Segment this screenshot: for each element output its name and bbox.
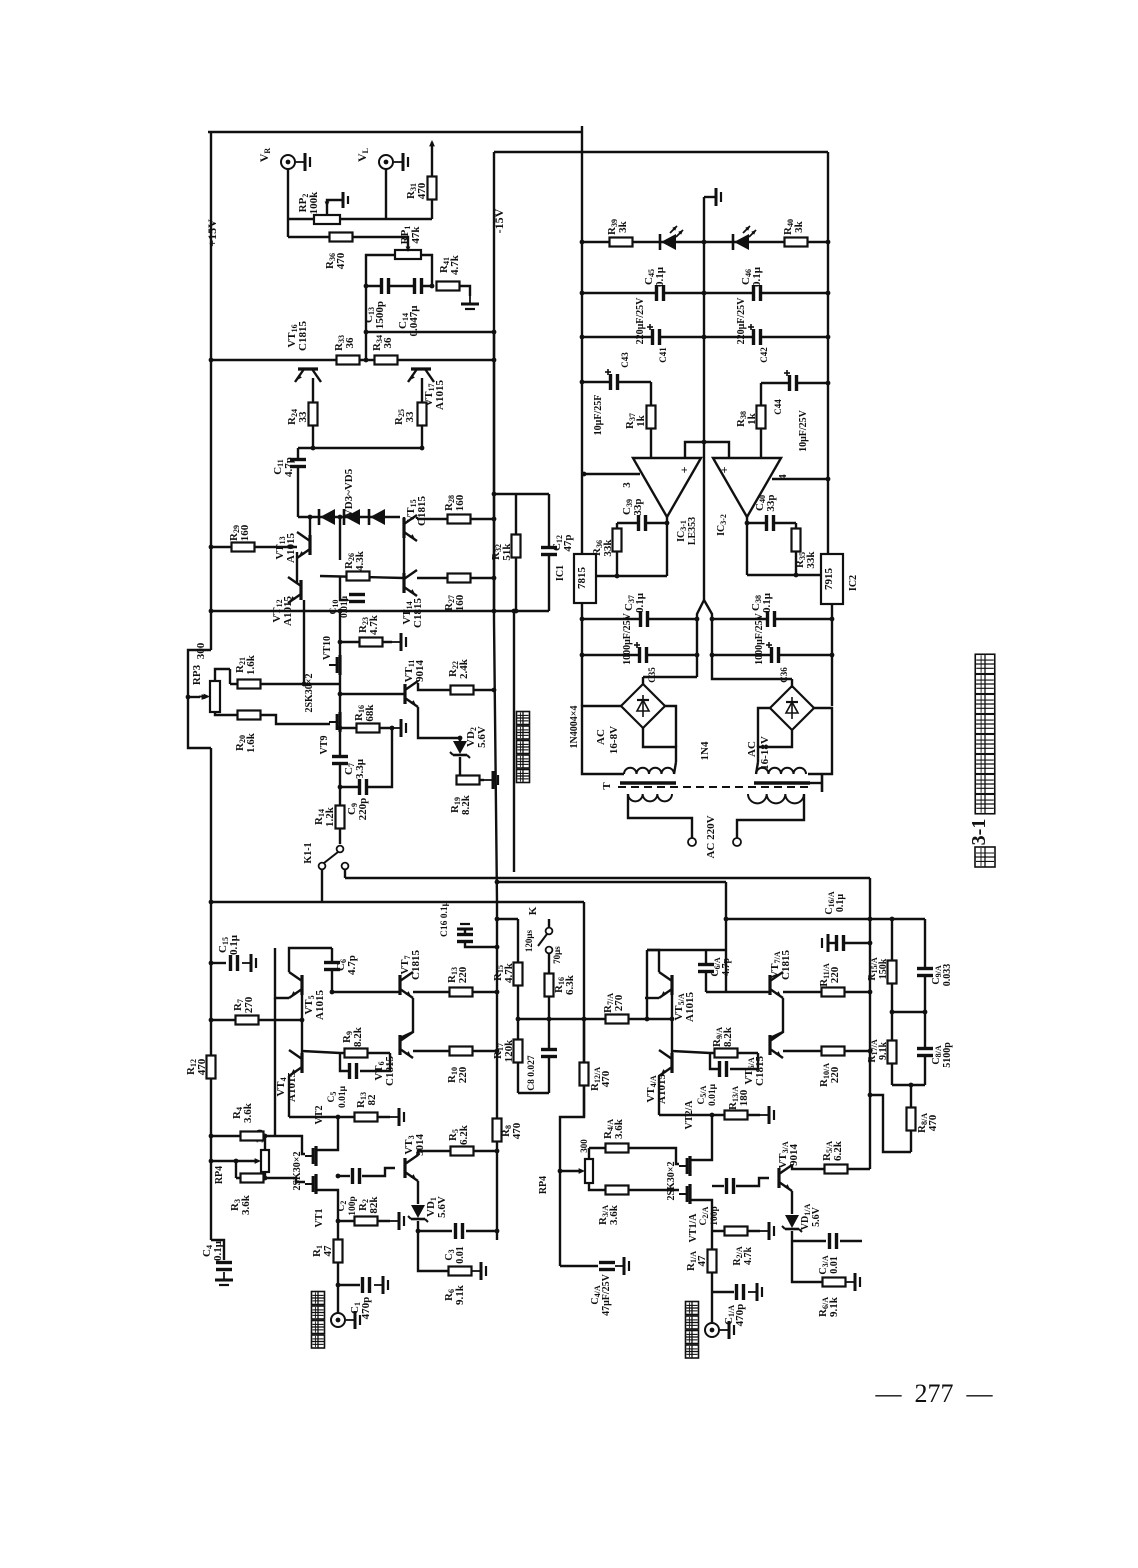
svg-text:C16 0.1μ: C16 0.1μ	[440, 900, 450, 937]
junction	[580, 380, 585, 385]
svg-text:33: 33	[297, 411, 309, 423]
wire cap row1	[582, 292, 828, 294]
jfet VT2Aj	[688, 1156, 691, 1176]
junction	[516, 1017, 521, 1022]
svg-text:-15V: -15V	[492, 208, 506, 233]
svg-text:— 277 —: — 277 —	[875, 1379, 994, 1408]
svg-text:2.4k: 2.4k	[458, 658, 470, 679]
wire diode row	[298, 516, 400, 518]
wire bridge2 left	[758, 708, 770, 747]
wire R20 row	[230, 715, 330, 724]
svg-text:470p: 470p	[734, 1304, 746, 1327]
wire base row	[340, 693, 405, 695]
wire rail360	[211, 359, 494, 361]
svg-text:1N4004×4: 1N4004×4	[569, 706, 580, 749]
capacitor C35 1000u	[639, 646, 648, 664]
wire R3 row	[236, 1178, 305, 1182]
wire R29 row	[211, 546, 297, 548]
bridge rectifier B2	[770, 686, 814, 730]
svg-text:33p: 33p	[632, 498, 644, 515]
zener VD1	[411, 1205, 425, 1218]
wire row1093	[518, 1092, 549, 1094]
wire C3A out	[840, 1240, 862, 1242]
junction	[909, 1083, 914, 1088]
wire row448	[298, 447, 422, 449]
junction	[492, 492, 497, 497]
junction	[330, 990, 335, 995]
svg-text:160: 160	[239, 524, 251, 541]
ground C4A	[615, 1265, 624, 1267]
wire bridge1 right	[665, 706, 676, 747]
svg-text:C8 0.027: C8 0.027	[527, 1055, 537, 1091]
wire C11 branch	[297, 448, 299, 517]
wire bridge2 right	[808, 708, 832, 774]
svg-text:VT9: VT9	[319, 736, 330, 755]
svg-text:47: 47	[322, 1245, 334, 1257]
transistor VT12	[299, 580, 302, 600]
wire R3 left	[235, 1161, 237, 1178]
ground input	[346, 1319, 355, 1321]
wire VT7-VT6 join	[400, 998, 413, 1045]
wire gnd stem	[704, 196, 716, 198]
svg-text:36: 36	[382, 337, 394, 349]
ground C1	[374, 1284, 383, 1286]
junction	[830, 617, 835, 622]
label 电唱输入	[686, 1302, 699, 1315]
svg-text:1000μF/25V: 1000μF/25V	[622, 612, 633, 665]
transistor VT16	[298, 367, 318, 370]
wire RP4 bot	[264, 1172, 266, 1178]
svg-text:51k: 51k	[501, 543, 513, 561]
wire R15A leads	[891, 919, 893, 1012]
junction	[890, 1010, 895, 1015]
wire LED row	[582, 241, 828, 243]
capacitor C45	[656, 284, 665, 302]
wire bridge1 bottom	[643, 728, 676, 762]
wire core gnd stem	[810, 782, 822, 784]
wire VT15 base	[403, 517, 405, 518]
wire rblock top	[647, 949, 726, 951]
svg-text:9.1k: 9.1k	[454, 1284, 466, 1305]
svg-text:C41: C41	[658, 347, 668, 363]
capacitor C43 10u	[610, 373, 619, 391]
svg-text:4.7p: 4.7p	[283, 457, 295, 477]
svg-text:C42: C42	[759, 347, 769, 363]
svg-text:1000μF/25V: 1000μF/25V	[754, 612, 765, 665]
wire row494	[494, 493, 549, 495]
wire -15V vertical rail	[493, 152, 495, 620]
wire VT9 col down	[339, 730, 341, 787]
connector input phono	[705, 1323, 719, 1337]
transistor VT5A	[670, 975, 673, 995]
svg-text:470: 470	[600, 1070, 612, 1087]
wire sec right inner	[756, 762, 758, 774]
potentiometer RP4	[261, 1150, 269, 1172]
svg-text:0.047μ: 0.047μ	[408, 305, 420, 337]
wire R21 row	[230, 683, 340, 685]
wire fb row1	[617, 522, 667, 524]
ground R2A	[760, 1230, 769, 1232]
wire VT15 col	[416, 517, 418, 519]
transistor VT17	[411, 367, 431, 370]
svg-text:47μF/25V: 47μF/25V	[601, 1273, 612, 1316]
wire R27 row	[417, 577, 494, 579]
wire R9A row	[672, 1051, 758, 1053]
op-amp IC3-2	[713, 458, 781, 517]
junction	[263, 1176, 268, 1181]
wire sec left inner	[674, 762, 676, 774]
svg-text:9014: 9014	[414, 660, 426, 683]
wire R10 row	[413, 1050, 497, 1052]
svg-text:6.2k: 6.2k	[458, 1124, 470, 1145]
ground at VR	[296, 161, 305, 163]
resistor R41	[437, 282, 460, 291]
wire x274 down	[274, 998, 276, 1136]
svg-text:+: +	[677, 466, 691, 473]
svg-text:3k: 3k	[617, 220, 629, 233]
diode VD3	[320, 509, 335, 525]
ground C1A	[748, 1291, 757, 1293]
svg-text:3k: 3k	[793, 220, 805, 233]
wire RP4A top	[588, 1148, 590, 1159]
svg-text:180: 180	[738, 1089, 750, 1106]
jfet VT9	[338, 712, 341, 732]
svg-text:82k: 82k	[368, 1196, 380, 1214]
wire pot row	[288, 218, 432, 220]
wire R23 row	[340, 641, 392, 643]
wire RP3 bot lead	[215, 712, 230, 715]
wire R8A leads	[910, 1085, 912, 1152]
junction	[492, 517, 497, 522]
svg-text:220: 220	[829, 966, 841, 983]
svg-text:10μF/25V: 10μF/25V	[798, 409, 809, 452]
svg-text:0.1μ: 0.1μ	[835, 894, 846, 913]
capacitor C38	[767, 610, 776, 628]
svg-text:VT1: VT1	[314, 1209, 325, 1228]
capacitor C37	[640, 610, 649, 628]
wire C3 out	[466, 1230, 497, 1232]
svg-text:8.2k: 8.2k	[460, 794, 472, 815]
wire out row2	[747, 574, 823, 576]
svg-text:C5/A: C5/A	[697, 1085, 708, 1104]
capacitor C7	[331, 756, 349, 765]
svg-text:1.2k: 1.2k	[324, 806, 336, 827]
capacitor C16	[456, 934, 474, 943]
transformer primary right	[748, 794, 804, 803]
capacitor C14	[414, 277, 423, 295]
wire bridge1 left	[582, 706, 624, 774]
wire fb row2	[747, 522, 796, 524]
wire R4A row	[589, 1148, 679, 1164]
wire bridge1 top	[642, 677, 644, 684]
junction	[710, 653, 715, 658]
svg-text:470: 470	[335, 252, 347, 269]
wire K top	[548, 919, 550, 927]
transistor VT14	[402, 573, 405, 593]
svg-text:36: 36	[344, 337, 356, 349]
junction	[495, 880, 500, 885]
junction	[209, 545, 214, 550]
capacitor C41 220u	[652, 328, 661, 346]
bridge rectifier B1	[621, 684, 665, 728]
svg-text:RP3: RP3	[191, 664, 203, 685]
wire R15 leads	[517, 919, 519, 1019]
wire R36fb	[616, 523, 618, 576]
svg-text:5.6V: 5.6V	[476, 726, 488, 748]
ground R16	[392, 727, 401, 729]
wire rail882	[497, 881, 726, 883]
wire PSU right rail	[827, 152, 829, 554]
terminal AC2	[733, 838, 741, 846]
junction	[512, 609, 517, 614]
junction	[830, 653, 835, 658]
wire VT15-14 join	[403, 538, 405, 573]
transformer T secondary right	[756, 768, 806, 774]
wire R3A row	[589, 1183, 679, 1190]
wire C2 out	[362, 1168, 395, 1176]
wire bridge2 bottom	[758, 730, 792, 762]
wire cap row3 right	[761, 382, 828, 384]
wire R9 row	[302, 1051, 390, 1053]
wire RP4 wiper feed	[211, 1160, 256, 1162]
svg-text:AC: AC	[595, 729, 607, 745]
ground C15	[242, 962, 251, 964]
wire K bottom	[548, 953, 550, 1019]
svg-text:C36: C36	[779, 667, 789, 683]
junction	[710, 1113, 715, 1118]
junction	[430, 284, 435, 289]
wire VT2 lead	[316, 1117, 338, 1150]
svg-text:5100p: 5100p	[942, 1042, 953, 1068]
transistor VT11	[403, 684, 406, 704]
wire R13 row	[413, 991, 497, 993]
wire R21 jog	[229, 669, 231, 684]
wire C12 leads	[548, 494, 550, 611]
regulator IC1 7815	[574, 554, 596, 603]
wire row1117	[289, 1116, 390, 1118]
wire VT16 collector	[312, 378, 314, 448]
junction	[868, 941, 873, 946]
wire VT12 emitter	[303, 600, 305, 684]
junction	[695, 653, 700, 658]
wire R6 col	[418, 1231, 448, 1271]
svg-text:0.01: 0.01	[829, 1256, 840, 1274]
wire R32 leads	[515, 494, 517, 611]
wire row679	[712, 677, 792, 679]
wire cap row2	[582, 336, 828, 338]
junction	[336, 1219, 341, 1224]
ground R23	[392, 641, 401, 643]
wire VT5 emitter up	[289, 948, 332, 972]
ground R13A	[760, 1114, 769, 1116]
junction	[209, 358, 214, 363]
wire input col	[337, 1262, 339, 1313]
wire C9 row	[340, 728, 392, 787]
wire R36 row2	[352, 237, 408, 248]
junction	[495, 1149, 500, 1154]
wire R38 leads	[760, 383, 762, 458]
wire R10A row	[783, 1050, 870, 1052]
wire R16 row	[340, 727, 392, 729]
svg-text:3.6k: 3.6k	[613, 1118, 625, 1139]
wire x726	[725, 882, 727, 992]
junction	[665, 521, 670, 526]
svg-text:A1015: A1015	[684, 992, 696, 1022]
wire VT2A lead	[690, 1115, 712, 1160]
wire VT17 collector	[421, 378, 423, 448]
wire inputA col	[711, 1272, 713, 1323]
terminal AC1	[688, 838, 696, 846]
transistor VT3A	[777, 1168, 780, 1188]
svg-text:7815: 7815	[576, 567, 588, 590]
svg-text:IC1: IC1	[555, 565, 566, 581]
svg-text:220: 220	[829, 1066, 841, 1083]
wire C13 C14 row	[366, 285, 434, 287]
wire VT5A emitter up	[647, 950, 659, 972]
transistor VT6A	[768, 1035, 771, 1055]
svg-text:8.2k: 8.2k	[722, 1026, 734, 1047]
svg-text:100p: 100p	[348, 1196, 358, 1216]
junction	[336, 1283, 341, 1288]
transformer primary left	[628, 794, 672, 801]
svg-text:1.6k: 1.6k	[245, 732, 257, 753]
transistor VT6	[398, 1035, 401, 1055]
junction	[209, 1018, 214, 1023]
svg-text:A1015: A1015	[434, 380, 446, 410]
junction	[263, 1134, 268, 1139]
wire primary left down	[628, 794, 692, 838]
svg-text:1.6k: 1.6k	[245, 654, 257, 675]
LED VD6	[661, 234, 676, 250]
junction	[209, 1159, 214, 1164]
junction	[826, 335, 831, 340]
junction	[582, 472, 587, 477]
wire row919	[497, 918, 518, 920]
svg-text:2SK30×2: 2SK30×2	[666, 1161, 677, 1200]
svg-text:33k: 33k	[805, 551, 817, 569]
wire C8 leads	[548, 1019, 550, 1093]
wire C16 gnd	[464, 929, 466, 934]
potentiometer RP1	[395, 250, 421, 259]
wire rail902	[211, 901, 584, 903]
wire R2 row	[338, 1220, 390, 1222]
svg-text:C2: C2	[337, 1201, 348, 1212]
wire C3A row	[792, 1240, 826, 1242]
svg-text:100p: 100p	[710, 1206, 720, 1226]
svg-text:C1815: C1815	[780, 950, 792, 980]
junction	[547, 1017, 552, 1022]
resistor R13A	[725, 1111, 748, 1120]
junction	[209, 1134, 214, 1139]
junction	[495, 917, 500, 922]
wire R17 leads	[517, 1019, 519, 1093]
junction	[645, 1017, 650, 1022]
svg-text:0.01μ: 0.01μ	[340, 595, 350, 618]
label figure caption 图3-1	[975, 654, 995, 674]
svg-text:300: 300	[195, 642, 207, 659]
connector input head	[331, 1313, 345, 1327]
junction	[209, 961, 214, 966]
svg-text:3.6k: 3.6k	[608, 1204, 620, 1225]
junction	[338, 515, 343, 520]
wire RP3 top lead	[215, 669, 230, 681]
svg-text:0.01: 0.01	[455, 1246, 466, 1264]
junction	[492, 609, 497, 614]
svg-text:47k: 47k	[410, 226, 422, 244]
wire VT9 source	[339, 675, 341, 712]
junction	[580, 240, 585, 245]
wire RP2 wiper	[327, 200, 343, 214]
svg-text:0.033: 0.033	[942, 964, 953, 987]
wire x584 down	[560, 902, 584, 1266]
junction	[420, 446, 425, 451]
wire out row1	[596, 575, 667, 577]
svg-text:220: 220	[457, 966, 469, 983]
junction	[702, 440, 707, 445]
svg-text:4.7k: 4.7k	[743, 1247, 754, 1266]
svg-text:470p: 470p	[360, 1297, 372, 1320]
jfet VT1j	[314, 1174, 317, 1194]
svg-text:9.1k: 9.1k	[828, 1296, 840, 1317]
wire RP4A wiper feed	[560, 1170, 580, 1172]
junction	[868, 1093, 873, 1098]
wire row619 L	[582, 618, 697, 620]
junction	[336, 1115, 341, 1120]
svg-text:4.7k: 4.7k	[368, 614, 380, 635]
wire C4 stub	[211, 1240, 224, 1260]
ground at VL	[394, 161, 403, 163]
zener VD2	[453, 741, 467, 754]
svg-text:VT10: VT10	[322, 636, 333, 660]
wire PSU left rail lower	[581, 603, 583, 706]
wire VT13 base up	[309, 517, 311, 535]
wire VT5-VT4 bases	[301, 995, 303, 1053]
junction	[495, 1229, 500, 1234]
junction	[492, 358, 497, 363]
svg-text:3: 3	[621, 482, 633, 488]
wire VT4 collector	[288, 1076, 290, 1117]
transistor VT7A	[768, 975, 771, 995]
junction	[702, 291, 707, 296]
junction	[300, 1018, 305, 1023]
junction	[826, 291, 831, 296]
svg-text:3.3μ: 3.3μ	[354, 758, 366, 779]
junction	[390, 726, 395, 731]
junction	[338, 785, 343, 790]
ground C4	[223, 1272, 225, 1280]
wire +in	[685, 442, 704, 458]
wire R5 row	[418, 1151, 497, 1155]
wire merge right	[704, 600, 712, 677]
junction	[745, 521, 750, 526]
wire RP4 top	[264, 1136, 266, 1150]
svg-text:T: T	[601, 782, 613, 790]
capacitor C46	[753, 284, 762, 302]
svg-text:100k: 100k	[308, 191, 320, 215]
wire RP3 wiper	[188, 696, 200, 698]
capacitor C16A	[836, 934, 845, 952]
svg-text:120μs: 120μs	[524, 929, 534, 952]
capacitor C39	[638, 514, 647, 532]
junction	[580, 653, 585, 658]
wire R26 row	[320, 576, 404, 578]
wire C15 stub	[211, 962, 226, 964]
svg-text:120k: 120k	[503, 1039, 515, 1063]
resistor R19	[457, 776, 480, 785]
wire K right contact down	[344, 869, 346, 878]
junction	[458, 736, 463, 741]
wire row619 R	[712, 618, 832, 620]
